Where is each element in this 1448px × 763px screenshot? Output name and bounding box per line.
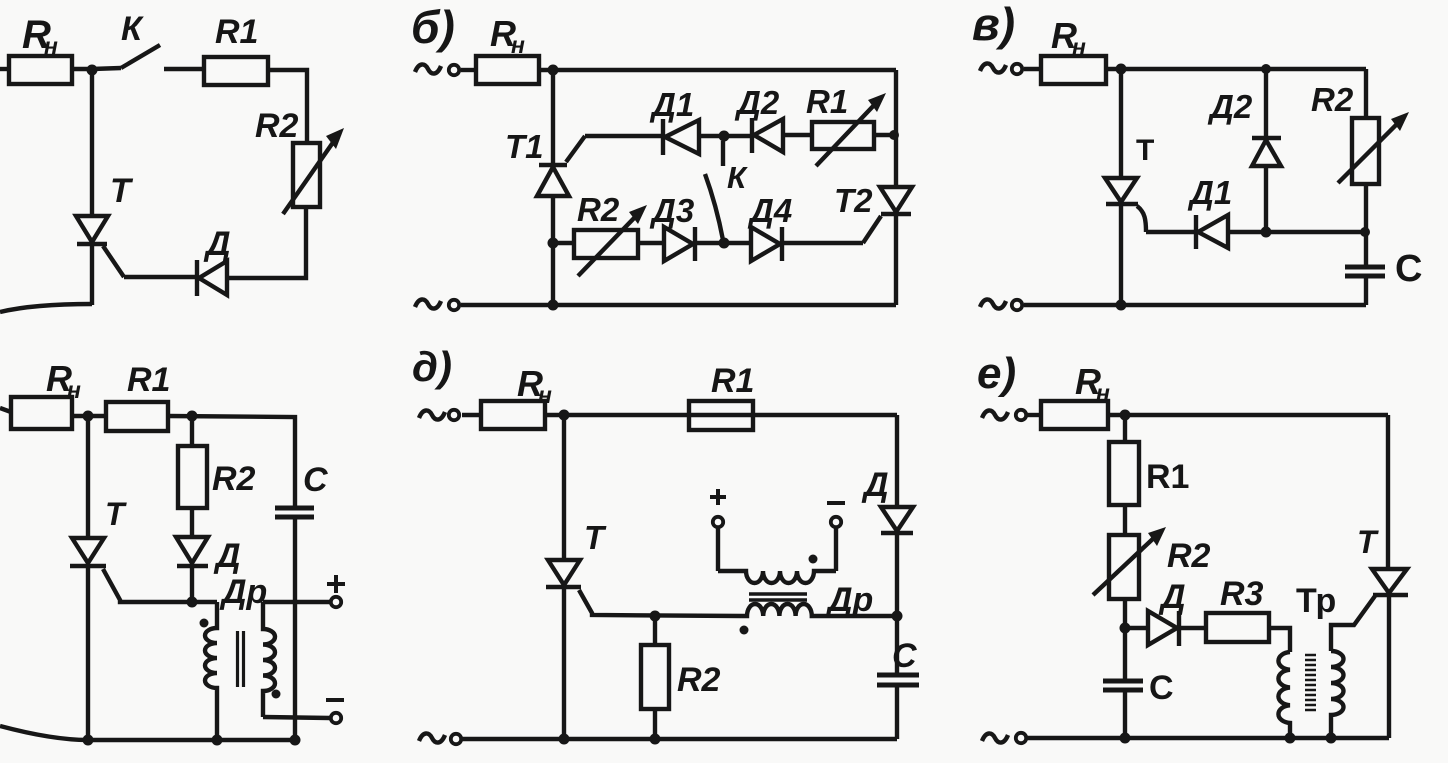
thyristor T (д) [548,560,580,585]
resistor R2 (г) [178,446,207,508]
svg-text:Т: Т [1136,134,1154,167]
svg-text:Д: Д [213,537,241,575]
terminal bottom (в) [1012,300,1022,310]
polarity dot secondary (г) [272,690,281,699]
gate of T (a) [103,246,124,277]
svg-text:T: T [584,519,607,556]
wire: R1 to corner (г) [168,416,295,506]
node bottom C (г) [290,735,301,746]
top wire (б) [539,68,896,72]
node Д2 bottom (в) [1261,227,1272,238]
svg-text:н: н [538,382,552,408]
svg-text:Д1: Д1 [1187,174,1232,211]
svg-text:К: К [727,160,748,195]
wire: gate branch to Д1 (б) [585,134,663,138]
svg-text:Д3: Д3 [649,192,694,229]
svg-text:R1: R1 [806,83,848,120]
bottom wire (г) [88,738,295,742]
transformer core (г) [236,631,239,687]
plus terminal (д) [713,517,723,527]
wire: diode to gate of T (a) [124,275,197,279]
resistor Rн (a) [9,56,72,84]
node bottom left rail (д) [559,734,570,745]
wire: Д3 to Д4 through node (б) [696,241,751,245]
svg-text:Тр: Тр [1296,582,1336,620]
left rail lower (в) [1119,204,1123,306]
arrow of R2 (в) [1338,121,1400,183]
svg-text:н: н [1096,380,1110,406]
wire: secondary left to plus terminal (д) [716,528,720,571]
plus sign (г) [327,575,345,593]
bottom wire (е) [1027,736,1389,740]
polarity dot primary (г) [200,619,209,628]
wire: terminal to Rн (б) [461,68,476,72]
minus sign (д) [827,501,845,505]
node bottom left rail (в) [1116,300,1127,311]
diode Д1 (в) [1194,215,1198,249]
node after R1 (г) [187,411,198,422]
wire: gate branch to Д1 (в) [1146,230,1196,234]
transformer Др primary winding (г) [205,602,217,740]
diode Д4 (б) [751,227,780,261]
wire: terminal to Rн (д) [462,413,481,417]
AC source squiggle top (б) [415,64,441,73]
svg-text:Д2: Д2 [734,84,780,121]
thyristor T cathode wire (г) [86,566,90,740]
svg-text:Д2: Д2 [1207,88,1253,125]
transformer core (д) [749,592,807,596]
top wire (в) [1106,67,1366,71]
wire: left lead into Rн (г) [0,408,11,412]
wire: Д to gate junction (г) [190,566,194,602]
svg-text:н: н [44,33,58,59]
wire: Д1 to right rail (в) [1228,230,1365,234]
resistor R3 (е) [1206,613,1269,642]
terminal bottom (б) [449,300,459,310]
wire: Д to R3 (е) [1180,626,1206,630]
resistor R2 (д) [641,645,669,709]
right rail middle (д) [895,533,899,674]
svg-text:Д: Д [861,466,889,504]
resistor Rн (в) [1041,56,1106,84]
wire: R2 down to bottom branch (a) [227,207,306,278]
resistor R1 (д) [689,401,753,430]
diode Д2 wire upper (в) [1264,69,1268,139]
right rail lower (е) [1387,595,1391,738]
bottom wire (д) [462,737,897,741]
svg-text:R2: R2 [1167,537,1211,575]
thyristor T (е) [1372,569,1407,593]
switch К blade (a) [121,45,160,68]
node: junction at Rн/T/switch (a) [87,65,98,76]
node after Rн (е) [1120,410,1131,421]
node after Rн (д) [559,410,570,421]
plus sign (д) [710,489,726,505]
wire: R1 to top-right corner down to R2 (a) [268,70,307,143]
AC source squiggle bottom (е) [982,733,1008,742]
thyristor T (г) [72,538,104,563]
minus terminal (г) [331,713,341,723]
node bottom of switch К (б) [719,238,730,249]
svg-text:Д4: Д4 [747,192,792,229]
wire: R3 to transformer primary (е) [1269,628,1290,652]
svg-text:е): е) [977,349,1016,398]
node after Rн (б) [548,65,559,76]
node at C/Д (е) [1120,623,1131,634]
wire: R2 to node (е) [1123,599,1127,680]
svg-text:T: T [105,496,127,532]
diode Д1 (б) [661,119,665,155]
svg-text:R2: R2 [677,661,721,699]
minus sign (г) [326,698,344,702]
svg-text:R3: R3 [1220,575,1264,613]
node top of switch К (б) [719,131,730,142]
variable resistor R2 (в) [1352,118,1379,184]
diode Д (a) [195,260,199,296]
wire: C to bottom rail (д) [895,685,899,739]
svg-text:д): д) [412,343,452,390]
node lower branch left (б) [548,238,559,249]
wire: R2 to Д (г) [190,508,194,537]
wire: Д1 to Д2 through node (б) [699,134,752,138]
svg-text:С: С [1395,248,1422,290]
svg-text:Др: Др [219,573,267,611]
gate of T1 (б) [566,136,585,162]
polarity dot primary (д) [740,626,749,635]
resistor R1 (е) [1109,442,1139,505]
wire: node to R2 (б) [553,241,574,245]
svg-text:Д: Д [1158,578,1186,616]
arrow of R1 (б) [816,101,878,166]
node bottom primary (е) [1285,733,1296,744]
svg-text:б): б) [411,1,455,53]
wire: terminal to Rн (е) [1027,413,1041,417]
wire: Д2 to R1 (б) [783,133,812,137]
node bottom left rail (б) [548,300,559,311]
capacitor C (в) [1345,265,1385,270]
top wire (е) [1108,413,1388,417]
thyristor T anode wire (г) [86,416,90,538]
svg-text:R1: R1 [215,13,258,51]
svg-text:R1: R1 [1146,458,1189,496]
svg-text:R2: R2 [255,107,299,145]
diode Д2 (в) [1252,136,1281,140]
gate of T2 (б) [863,216,881,243]
resistor R1 (г) [106,402,168,431]
thyristor T cathode wire (a) [90,244,94,305]
node bottom T (г) [83,735,94,746]
wire: C to bottom (в) [1364,278,1368,305]
variable resistor R2 (е) [1109,535,1139,599]
terminal bottom (д) [451,734,461,744]
diode Д (д) [881,507,913,531]
right rail upper (д) [895,415,899,507]
node at Д cathode / gate wire (г) [187,597,198,608]
gate of T (в) [1137,206,1146,232]
variable resistor R2 (a) [293,143,320,207]
AC source squiggle top (в) [980,63,1006,72]
wire: switch fixed lead to R1 (a) [164,67,204,71]
AC source squiggle top (е) [982,410,1008,419]
capacitor C (е) [1103,679,1143,684]
wire: node down to R1 (е) [1123,415,1127,442]
thyristor T (в) [1105,178,1137,202]
svg-text:в): в) [972,0,1015,50]
gate of T (г) [103,569,217,602]
wire: C down to bottom rail (г) [293,517,297,740]
left rail upper (д) [562,415,566,560]
svg-text:T: T [1357,524,1379,560]
svg-text:T1: T1 [505,128,544,165]
svg-text:R2: R2 [1311,81,1354,118]
AC source squiggle top (д) [419,410,445,419]
node bottom C (е) [1120,733,1131,744]
resistor Rн (г) [11,397,72,429]
AC source squiggle bottom (д) [419,733,445,742]
svg-text:Др: Др [825,581,873,619]
node at R2/C (в) [1360,227,1370,237]
right rail lower (б) [894,214,898,305]
svg-text:R1: R1 [711,362,754,400]
terminal bottom (е) [1016,733,1026,743]
switch К stub (б) [721,141,725,166]
transformer Др primary winding (д) [742,604,897,616]
AC source squiggle bottom (б) [415,299,441,308]
resistor Rн (д) [481,401,545,429]
variable resistor R1 (б) [812,122,874,149]
wire: R1 to right rail (б) [874,133,896,137]
resistor R1 (a) [204,57,268,85]
wire: left rail lower (б) [551,196,555,305]
capacitor C (г) [275,506,314,511]
switch К blade (б) [705,174,723,240]
bottom wire (б) [461,303,896,307]
wire: secondary top to plus terminal (г) [263,600,330,604]
wire: node down to R2 (г) [190,416,194,446]
terminal top (в) [1012,64,1022,74]
node bottom primary (г) [212,735,223,746]
diode Д (е) [1148,611,1177,645]
node bottom R2 (д) [650,734,661,745]
svg-text:C: C [892,637,917,675]
top wire (д) [545,413,897,417]
thyristor T2 (б) [880,187,912,212]
svg-text:T: T [110,172,134,210]
svg-text:н: н [1072,34,1086,60]
svg-text:Д: Д [203,225,231,263]
node at R2 branch (д) [650,611,661,622]
variable resistor R2 (б) [574,230,638,258]
svg-text:К: К [121,10,144,48]
bottom wire (в) [1024,303,1366,307]
wire: secondary right to minus terminal (д) [834,528,838,571]
right rail upper (в) [1364,69,1368,118]
wire: left lead into Rн (a) [0,67,10,71]
wire: Д4 to T2 gate (б) [783,241,863,245]
node after Rн (г) [83,411,94,422]
wire: Rн to R1 (г) [72,414,106,418]
svg-text:н: н [511,32,525,58]
wire: bottom lead off left edge (г) [0,726,88,740]
arrow of R2 (б) [578,213,639,276]
thyristor T anode wire (a) [90,70,94,216]
thyristor T (a) [76,216,108,242]
node after Rн (в) [1116,64,1127,75]
transformer Тр secondary winding (е) [1331,651,1344,738]
transformer Др secondary winding (д) [718,571,836,583]
right rail middle (в) [1364,184,1368,266]
left rail upper (в) [1119,69,1123,178]
wire: left rail upper (б) [551,70,555,167]
svg-text:С: С [1149,669,1174,707]
svg-text:T2: T2 [834,182,873,219]
wire: C to bottom rail (е) [1123,690,1127,738]
resistor Rн (б) [476,56,539,84]
wire: terminal to Rн (в) [1024,67,1041,71]
terminal top (е) [1016,410,1026,420]
diode Д2 wire lower (в) [1264,166,1268,232]
terminal top (б) [449,65,459,75]
minus terminal (д) [831,517,841,527]
left rail lower (д) [562,587,566,739]
wire: node to Д (е) [1125,626,1148,630]
node at Др/Д/C (д) [892,611,903,622]
wire: bottom lead off left edge (a) [0,304,92,312]
AC source squiggle bottom (в) [980,299,1006,308]
terminal top (д) [449,410,459,420]
plus terminal (г) [331,597,341,607]
svg-text:R2: R2 [212,460,256,498]
wire: secondary top to gate of T (е) [1331,596,1375,651]
wire: node to switch pivot (a) [92,68,121,69]
wire: R2 to bottom rail (д) [653,709,657,739]
node Д2 top (в) [1261,64,1271,74]
right rail upper (б) [894,70,898,187]
svg-text:Д1: Д1 [649,86,694,123]
arrow of R2 (a) [283,141,334,214]
svg-text:н: н [67,377,81,403]
svg-text:C: C [303,461,328,499]
node top branch right (б) [889,130,899,140]
diode Д2 (б) [750,118,754,153]
right rail upper (е) [1386,415,1390,569]
gate of T (д) [579,590,742,616]
wire: node down to R2 (д) [653,616,657,645]
wire: Rн to node (a) [72,67,92,71]
node bottom secondary (е) [1326,733,1337,744]
svg-text:R2: R2 [577,191,620,228]
resistor Rн (е) [1041,401,1108,429]
diode Д (г) [176,537,208,563]
thyristor T1 (б) [539,163,567,167]
diode Д3 (б) [664,227,693,261]
transformer core (е) [1305,655,1316,710]
transformer Тр primary winding (е) [1278,652,1290,738]
transformer Др secondary winding (г) [263,602,275,717]
polarity dot secondary (д) [809,555,818,564]
arrow of R2 (е) [1093,535,1157,595]
svg-text:R1: R1 [127,361,170,399]
wire: R1 to R2 (е) [1123,505,1127,535]
wire: R2 to Д3 (б) [638,241,664,245]
capacitor C (д) [877,673,919,678]
wire: secondary bottom to minus terminal (г) [263,717,330,718]
